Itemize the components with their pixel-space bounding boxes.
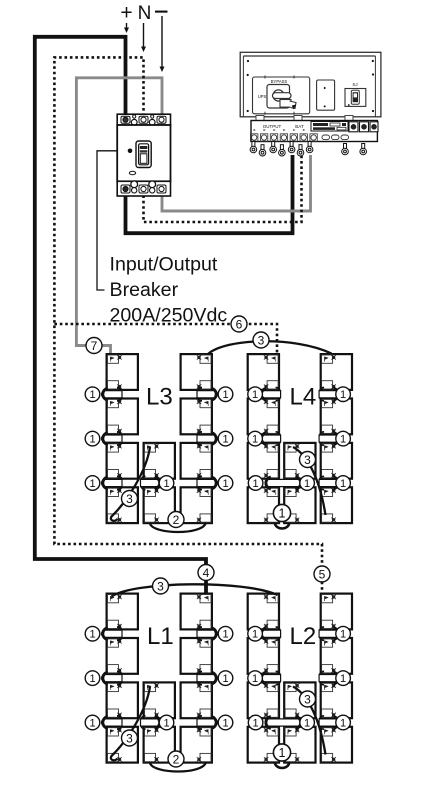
svg-text:3: 3 [258,334,265,348]
svg-text:200A/250Vdc: 200A/250Vdc [110,305,228,327]
svg-text:BYPASS: BYPASS [271,79,288,84]
svg-text:5: 5 [319,568,326,582]
svg-text:+: + [120,2,132,25]
svg-text:4: 4 [203,566,210,580]
svg-text:L2: L2 [290,623,317,650]
svg-text:7: 7 [91,339,98,353]
svg-text:L1: L1 [147,623,174,650]
svg-text:SJ: SJ [352,82,357,87]
svg-text:OUTPUT: OUTPUT [263,124,282,129]
svg-text:L3: L3 [146,384,173,411]
svg-text:N: N [138,3,152,24]
svg-text:6: 6 [236,318,243,332]
svg-text:Input/Output: Input/Output [110,254,218,276]
svg-text:UPS: UPS [258,94,267,99]
svg-text:BAT: BAT [295,124,304,129]
svg-text:Breaker: Breaker [110,279,179,301]
svg-text:3: 3 [157,580,164,594]
svg-text:L4: L4 [290,384,317,411]
